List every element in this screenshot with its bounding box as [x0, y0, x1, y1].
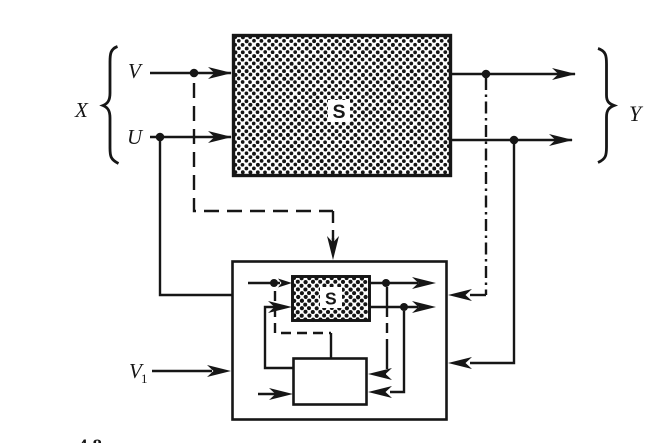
- node on model input 1: [270, 279, 278, 287]
- node on output 1: [482, 70, 491, 79]
- wire output 1: [451, 73, 575, 75]
- node on output 2: [510, 136, 519, 145]
- wire V input: [150, 72, 231, 74]
- svg-text:X: X: [74, 98, 89, 122]
- arrowhead model input 2: [268, 301, 292, 313]
- arrowhead into estimator right 2: [368, 386, 392, 398]
- wire estimator top stem: [330, 333, 332, 358]
- label V1: [129, 359, 148, 386]
- arrowhead model output 1: [412, 277, 436, 289]
- estimator box (plain): [294, 359, 367, 405]
- wire model input 1: [248, 282, 280, 284]
- svg-text:S: S: [325, 289, 337, 309]
- dashed wire drop into controller: [332, 211, 334, 240]
- arrowhead into controller top: [332, 238, 334, 244]
- arrowhead output 1: [552, 68, 576, 80]
- arrowhead V1 into controller: [207, 365, 231, 377]
- node on model output 1: [382, 279, 390, 287]
- system block S (main plant): [233, 35, 451, 175]
- arrowhead estimator lower-left: [269, 388, 293, 400]
- arrowhead output 2: [549, 134, 573, 146]
- wire estimator lower-left stub: [258, 393, 276, 395]
- dash-dot wire from output 1 down: [485, 78, 487, 295]
- arrowhead output2 feedback into controller right: [448, 357, 472, 369]
- wire model output 1: [370, 282, 418, 284]
- dashed wire node to estimator top: [275, 287, 331, 333]
- svg-text:V: V: [128, 59, 143, 83]
- arrowhead dash-dot into controller right: [470, 294, 486, 296]
- dashed wire from V node down and right: [194, 77, 333, 211]
- dashed wire model output to estimator right: [382, 287, 387, 374]
- node on V wire: [190, 69, 199, 78]
- node on U wire: [156, 133, 165, 142]
- brace Y: [598, 49, 614, 163]
- wire output 2: [451, 139, 572, 141]
- arrowhead model input 1: [278, 279, 292, 288]
- wire model output 2 to estimator right: [390, 311, 404, 392]
- controller outer box: [233, 262, 447, 420]
- wire V1 input: [152, 370, 212, 372]
- svg-text:48: 48: [78, 436, 107, 443]
- arrowhead model output 2: [412, 301, 436, 313]
- svg-text:S: S: [333, 101, 346, 123]
- svg-text:1: 1: [141, 371, 148, 386]
- model block S (small hatched): [292, 276, 370, 322]
- wire output 2 feedback down: [470, 140, 514, 363]
- wire estimator to model input 2: [265, 307, 293, 368]
- brace X: [103, 47, 119, 164]
- arrowhead V into S: [208, 67, 232, 79]
- arrowhead into estimator right 1: [368, 368, 392, 380]
- arrowhead U into S: [208, 131, 232, 143]
- wire model output 2: [370, 306, 418, 308]
- svg-text:U: U: [127, 125, 144, 149]
- node on model output 2: [400, 303, 408, 311]
- wire U feedback down-left: [160, 137, 232, 295]
- wire U input: [150, 136, 231, 138]
